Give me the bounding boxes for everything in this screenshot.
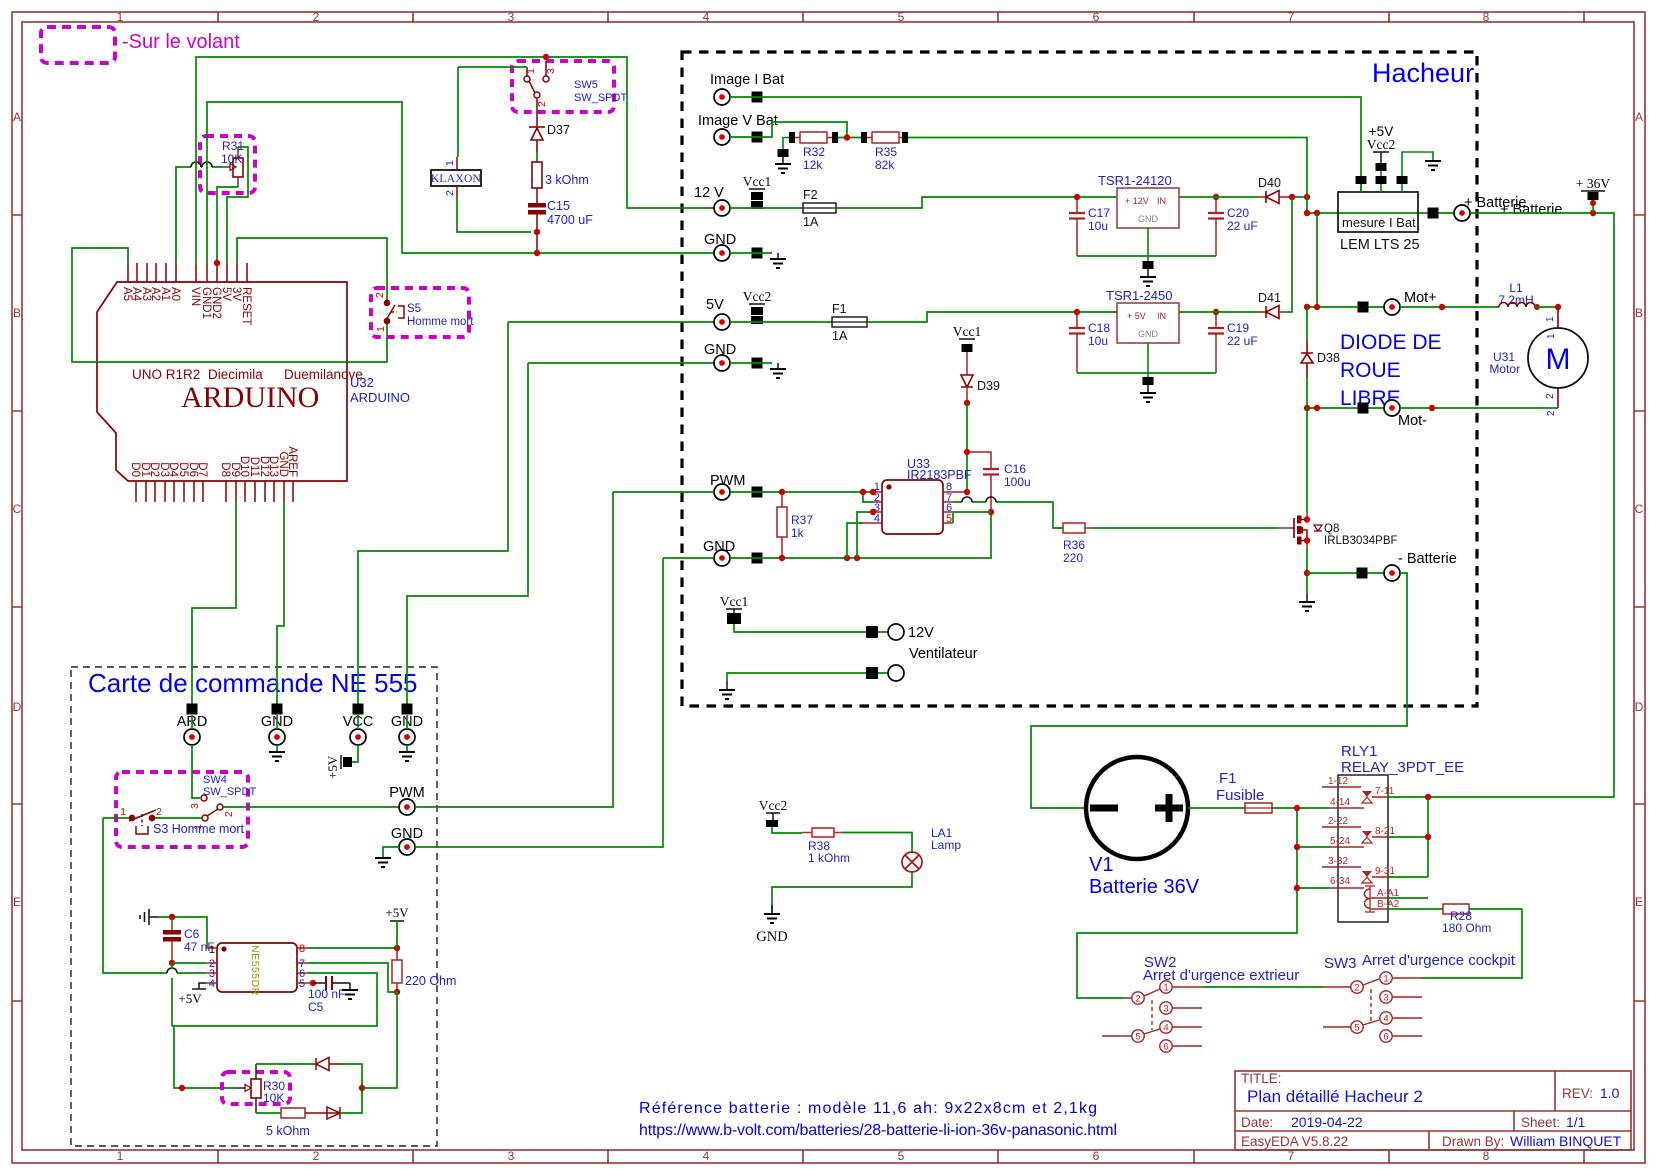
svg-text:GND: GND bbox=[756, 929, 787, 945]
wire fan gnd bbox=[727, 673, 888, 681]
svg-text:D38: D38 bbox=[1317, 351, 1340, 365]
svg-text:12 V: 12 V bbox=[694, 185, 724, 201]
svg-text:C15: C15 bbox=[547, 199, 570, 213]
transistor Q8 IRLB3034PBF bbox=[1293, 518, 1295, 538]
svg-text:6: 6 bbox=[1383, 1032, 1388, 1043]
svg-text:+5V: +5V bbox=[325, 755, 340, 779]
svg-text:IN: IN bbox=[1157, 196, 1166, 206]
svg-text:5: 5 bbox=[898, 10, 905, 24]
svg-text:3: 3 bbox=[189, 803, 201, 809]
svg-text:TSR1-2450: TSR1-2450 bbox=[1106, 288, 1172, 303]
svg-text:Vcc2: Vcc2 bbox=[1367, 137, 1395, 152]
svg-text:7: 7 bbox=[1288, 1149, 1295, 1163]
svg-text:E: E bbox=[13, 895, 21, 909]
power flag +5V pin4 bbox=[199, 983, 206, 989]
svg-text:ARDUINO: ARDUINO bbox=[350, 390, 410, 405]
wire gnd to pin1 bbox=[158, 917, 207, 948]
svg-text:1/1: 1/1 bbox=[1566, 1114, 1586, 1130]
wire A0 to R31 wiper with hops bbox=[176, 167, 222, 263]
svg-text:+5V: +5V bbox=[178, 991, 202, 1006]
svg-text:3: 3 bbox=[545, 68, 557, 74]
wire A5 to S5 pin1 bbox=[72, 248, 387, 362]
frame row letters bbox=[13, 110, 1644, 909]
svg-text:Vcc2: Vcc2 bbox=[743, 289, 771, 304]
junction SW5 pin3 bbox=[543, 54, 549, 60]
svg-text:William BINQUET: William BINQUET bbox=[1510, 1133, 1622, 1149]
svg-text:-Sur le volant: -Sur le volant bbox=[122, 31, 240, 53]
svg-text:RLY1: RLY1 bbox=[1341, 743, 1377, 760]
svg-text:Plan détaillé Hacheur 2: Plan détaillé Hacheur 2 bbox=[1247, 1087, 1423, 1106]
svg-text:6: 6 bbox=[1163, 1042, 1168, 1053]
svg-text:Ventilateur: Ventilateur bbox=[909, 646, 978, 662]
resistor 3kOhm bbox=[532, 162, 542, 188]
port + Batterie bbox=[1428, 208, 1439, 219]
svg-text:5-24: 5-24 bbox=[1330, 836, 1350, 847]
svg-text:AREF: AREF bbox=[286, 446, 298, 477]
capacitor C6 bbox=[171, 917, 173, 930]
resistor R36 220 bbox=[1063, 523, 1085, 533]
wire D37 to R bbox=[536, 152, 538, 162]
svg-text:220: 220 bbox=[1063, 551, 1083, 565]
svg-text:2: 2 bbox=[1546, 410, 1557, 416]
svg-text:UNO R1R2: UNO R1R2 bbox=[132, 367, 200, 382]
ground port 12V bbox=[770, 259, 786, 268]
relay contact group 1 bbox=[1322, 787, 1388, 808]
ground ARD board bbox=[269, 752, 285, 761]
wire PWM port to U33 bbox=[730, 491, 873, 493]
ground TSR1 bbox=[1140, 277, 1156, 286]
dashed box Hacheur bbox=[682, 52, 1477, 706]
wire diode node to 220 bottom bbox=[362, 992, 397, 1088]
svg-text:9-31: 9-31 bbox=[1375, 866, 1395, 877]
svg-text:5: 5 bbox=[299, 978, 305, 990]
wire fuse to relay commons bbox=[1272, 807, 1330, 809]
svg-text:C18: C18 bbox=[1088, 321, 1110, 335]
svg-text:8-21: 8-21 bbox=[1375, 826, 1395, 837]
svg-text:NE555DR: NE555DR bbox=[249, 945, 261, 996]
svg-text:Drawn By:: Drawn By: bbox=[1442, 1134, 1504, 1149]
diode bottom branch bbox=[327, 1107, 340, 1119]
junction divider tap bbox=[844, 134, 850, 140]
svg-text:8: 8 bbox=[299, 943, 305, 955]
svg-text:GND: GND bbox=[1138, 214, 1159, 224]
wire Mot- to Q8 drain bbox=[1306, 408, 1308, 513]
svg-text:10u: 10u bbox=[1088, 334, 1108, 348]
svg-text:Référence batterie : modèle 11: Référence batterie : modèle 11,6 ah: 9x2… bbox=[639, 1100, 1097, 1117]
svg-text:2: 2 bbox=[444, 190, 456, 196]
svg-text:4700 uF: 4700 uF bbox=[547, 213, 593, 227]
wire VCC to +5V flag bbox=[352, 745, 358, 762]
resistor R35 bbox=[861, 132, 867, 143]
port VCC bbox=[353, 704, 364, 715]
wire coil B to R28 bbox=[1388, 908, 1443, 910]
wire R28 to SW3 bbox=[1422, 909, 1522, 978]
svg-text:1A: 1A bbox=[803, 215, 819, 229]
wire 12V to fuse bbox=[730, 207, 803, 209]
svg-text:D: D bbox=[13, 700, 22, 714]
switch SW4 bbox=[201, 795, 223, 821]
ground fan bbox=[726, 681, 728, 690]
svg-text:1: 1 bbox=[525, 68, 537, 74]
wire TSR2 gnd rail bbox=[1077, 372, 1216, 374]
svg-text:D41: D41 bbox=[1258, 291, 1281, 305]
svg-text:TSR1-24120: TSR1-24120 bbox=[1098, 173, 1172, 188]
wire LEM right pin to ground bbox=[1402, 152, 1433, 176]
wire TSR2 output rail bbox=[1179, 311, 1258, 313]
U33 pins right bbox=[943, 492, 967, 523]
svg-text:Q8: Q8 bbox=[1324, 523, 1339, 535]
capacitor C16 bbox=[967, 452, 991, 512]
svg-text:2: 2 bbox=[313, 1149, 320, 1163]
junction 220 bottom bbox=[394, 989, 400, 995]
svg-text:4: 4 bbox=[1163, 1023, 1168, 1034]
relay contact group 2 bbox=[1322, 827, 1388, 847]
svg-text:D7: D7 bbox=[196, 462, 208, 477]
wire Q8 drain bbox=[1306, 513, 1308, 520]
svg-text:82k: 82k bbox=[875, 158, 895, 172]
port Mot- bbox=[1358, 403, 1369, 414]
svg-text:2: 2 bbox=[313, 10, 320, 24]
svg-text:6-34: 6-34 bbox=[1330, 876, 1350, 887]
svg-text:REV:: REV: bbox=[1562, 1086, 1593, 1101]
svg-text:3-32: 3-32 bbox=[1328, 856, 1348, 867]
svg-text:R32: R32 bbox=[803, 145, 825, 159]
capacitor C20 bbox=[1208, 213, 1224, 219]
wire TSR1 output rail bbox=[1179, 196, 1258, 198]
svg-text:3: 3 bbox=[508, 10, 515, 24]
svg-text:1: 1 bbox=[1163, 983, 1168, 994]
svg-text:Image V Bat: Image V Bat bbox=[698, 113, 778, 129]
wire lamp to gnd bbox=[772, 872, 912, 912]
wire Mot+ line bbox=[1307, 306, 1384, 308]
svg-text:3: 3 bbox=[508, 1149, 515, 1163]
wire ARD to SW4 pin3 bbox=[192, 745, 200, 798]
svg-text:U32: U32 bbox=[350, 375, 374, 390]
diode D38 roue libre bbox=[1301, 353, 1313, 363]
svg-text:Mot-: Mot- bbox=[1398, 413, 1427, 429]
wire PWM into Hacheur bbox=[613, 491, 714, 493]
resistor R38 1 kOhm bbox=[802, 832, 842, 834]
wire GND 5V to GND2 board bbox=[407, 363, 714, 704]
svg-text:A: A bbox=[13, 110, 21, 124]
current sensor LEM LTS 25 bbox=[1338, 192, 1418, 232]
svg-text:12V: 12V bbox=[908, 625, 934, 641]
svg-text:2: 2 bbox=[536, 101, 548, 107]
motor pin2 bbox=[1557, 388, 1559, 408]
wire V sense to vertical bus bbox=[908, 138, 1307, 198]
wire pin6 threshold loop bbox=[172, 973, 377, 1026]
wire trigger down to wiper bbox=[174, 1026, 237, 1088]
svg-text:Lamp: Lamp bbox=[931, 838, 961, 852]
switch S5 Homme mort bbox=[384, 300, 404, 323]
svg-text:1: 1 bbox=[375, 326, 387, 332]
svg-text:C6: C6 bbox=[184, 927, 200, 941]
svg-text:Carte de commande NE 555: Carte de commande NE 555 bbox=[88, 668, 418, 698]
svg-text:1: 1 bbox=[1545, 316, 1556, 322]
wire R32 left to ground bbox=[783, 138, 789, 151]
wire VIN to 12V rail bbox=[196, 57, 714, 263]
wire Q8 source bbox=[1306, 541, 1308, 549]
svg-text:1-12: 1-12 bbox=[1328, 776, 1348, 787]
svg-text:C19: C19 bbox=[1227, 321, 1249, 335]
svg-text:C: C bbox=[1635, 502, 1644, 516]
svg-text:S5: S5 bbox=[407, 303, 421, 315]
junction relay commons bbox=[1294, 805, 1300, 811]
arduino bottom pins bbox=[136, 481, 293, 502]
svg-text:Date:: Date: bbox=[1241, 1115, 1273, 1130]
ground C5 bbox=[349, 983, 351, 990]
wire LEM measure line bbox=[1307, 212, 1454, 214]
svg-text:IN: IN bbox=[1157, 311, 1166, 321]
svg-text:+ Batterie: + Batterie bbox=[1500, 202, 1562, 218]
junction wiper bbox=[179, 1085, 185, 1091]
svg-text:Batterie 36V: Batterie 36V bbox=[1089, 876, 1200, 898]
switch S3 Homme mort bbox=[129, 810, 156, 834]
svg-text:100u: 100u bbox=[1004, 475, 1031, 489]
svg-text:5V: 5V bbox=[706, 297, 724, 313]
junctions GND rail bbox=[779, 555, 785, 561]
trimmer R30 bbox=[237, 1087, 245, 1089]
svg-text:220 Ohm: 220 Ohm bbox=[405, 974, 456, 988]
wire S3 to NE555 pin3 with hop bbox=[103, 818, 206, 973]
junction pin5 bbox=[310, 980, 316, 986]
wire U33 pin7 to R36 with hops bbox=[953, 502, 1063, 528]
potentiometer R31 dashed box bbox=[200, 136, 255, 193]
svg-text:4: 4 bbox=[703, 1149, 710, 1163]
wire pin8 to +5V and 220 bbox=[308, 947, 397, 949]
wire coil A stub bbox=[1388, 897, 1428, 899]
ground LEM bbox=[1425, 161, 1441, 170]
svg-text:F1: F1 bbox=[1219, 770, 1237, 787]
R31 wiper arrow bbox=[222, 166, 230, 168]
wire GND rail to C16 riser bbox=[730, 512, 991, 558]
wire F2 to TSR1 input bbox=[836, 197, 1117, 208]
svg-text:D: D bbox=[1635, 700, 1644, 714]
svg-text:1: 1 bbox=[209, 944, 215, 956]
svg-text:Diecimila: Diecimila bbox=[208, 367, 263, 382]
svg-text:180 Ohm: 180 Ohm bbox=[1442, 921, 1491, 935]
ground port 5V bbox=[770, 369, 786, 378]
svg-text:2-22: 2-22 bbox=[1328, 816, 1348, 827]
wire Vcc1 to 12V fan port bbox=[734, 624, 888, 632]
svg-text:D40: D40 bbox=[1258, 176, 1281, 190]
wire GND board to Hacheur bbox=[415, 558, 663, 847]
svg-text:1A: 1A bbox=[832, 329, 848, 343]
svg-text:LEM LTS 25: LEM LTS 25 bbox=[1340, 237, 1420, 253]
ground NE555 pin1 bbox=[140, 909, 149, 925]
svg-text:Vcc1: Vcc1 bbox=[720, 594, 748, 609]
svg-text:EasyEDA V5.8.22: EasyEDA V5.8.22 bbox=[1241, 1134, 1348, 1149]
svg-text:1: 1 bbox=[1546, 333, 1557, 339]
port Ventilateur bbox=[866, 667, 878, 679]
svg-text:IRLB3034PBF: IRLB3034PBF bbox=[1324, 535, 1398, 547]
svg-text:SW_SPDT: SW_SPDT bbox=[574, 92, 627, 104]
wire Mot+ to L1 bbox=[1400, 306, 1499, 308]
svg-text:7: 7 bbox=[1288, 10, 1295, 24]
arduino top pins bbox=[128, 263, 247, 282]
svg-text:12k: 12k bbox=[803, 158, 823, 172]
wire SW2 to SW3 bbox=[1202, 986, 1323, 988]
svg-text:10K: 10K bbox=[263, 1091, 284, 1105]
wire Vcc2 to R38 bbox=[772, 827, 802, 833]
junction U33 pin8 node bbox=[964, 489, 970, 495]
ground lamp bbox=[771, 905, 773, 914]
svg-text:2: 2 bbox=[374, 292, 386, 298]
svg-text:SW5: SW5 bbox=[574, 79, 598, 91]
svg-text:4: 4 bbox=[1383, 1014, 1388, 1025]
switch S5 dashed box bbox=[371, 288, 469, 337]
switch SW5 dashed box bbox=[512, 61, 614, 112]
wire R31 bottom to GND2 pin bbox=[217, 187, 238, 263]
wire GND pin to GND port bbox=[277, 502, 284, 704]
wire pin2 bbox=[172, 962, 206, 964]
svg-text:M: M bbox=[1546, 343, 1571, 376]
port 12V fan bbox=[866, 626, 878, 638]
wire main bus D40 node down to LEM line bbox=[1306, 197, 1308, 213]
svg-text:D39: D39 bbox=[977, 379, 1000, 393]
svg-text:8: 8 bbox=[1483, 1149, 1490, 1163]
wire + Batterie to +36V corner bbox=[1428, 213, 1614, 797]
svg-text:5: 5 bbox=[1354, 1023, 1359, 1034]
svg-text:DIODE DE: DIODE DE bbox=[1340, 331, 1442, 354]
svg-text:+ 5V: + 5V bbox=[1127, 311, 1146, 321]
svg-text:C16: C16 bbox=[1004, 462, 1026, 476]
svg-text:C: C bbox=[13, 502, 22, 516]
svg-text:2: 2 bbox=[156, 806, 162, 818]
wire divider tap bbox=[838, 137, 861, 139]
arduino U32 body bbox=[97, 282, 347, 481]
wire PWM board to Hacheur bbox=[415, 492, 613, 807]
wire U33 pin5 stub bbox=[952, 513, 954, 523]
svg-text:8: 8 bbox=[1483, 10, 1490, 24]
wire battery feed to Mot+ bbox=[1316, 213, 1318, 307]
junction C15 bottom bbox=[534, 229, 540, 235]
wire D41 riser to D40 bbox=[1285, 197, 1307, 312]
svg-text:Fusible: Fusible bbox=[1216, 787, 1264, 804]
wire Image V Bat jog to divider tap bbox=[730, 122, 847, 137]
arduino bottom pin names bbox=[129, 446, 298, 477]
port GND board bbox=[272, 704, 283, 715]
title block bbox=[1235, 1071, 1631, 1150]
wire L1 to motor pin1 bbox=[1535, 306, 1558, 308]
svg-text:Image I Bat: Image I Bat bbox=[710, 72, 784, 88]
ground GND2 board bbox=[399, 752, 415, 761]
svg-text:5 kOhm: 5 kOhm bbox=[266, 1124, 310, 1138]
svg-text:2: 2 bbox=[1135, 994, 1140, 1005]
svg-text:RELAY_3PDT_EE: RELAY_3PDT_EE bbox=[1341, 759, 1464, 776]
ground Q8 bbox=[1306, 593, 1308, 602]
wire TSR1 gnd rail bbox=[1077, 255, 1216, 257]
wire R38 to lamp bbox=[842, 833, 912, 853]
frame column numbers top bbox=[117, 10, 1490, 24]
junction GND2 pin bbox=[214, 260, 220, 266]
svg-text:GND: GND bbox=[1138, 329, 1159, 339]
resistor R28 180 Ohm bbox=[1443, 904, 1469, 914]
svg-text:22 uF: 22 uF bbox=[1227, 334, 1258, 348]
svg-text:SW_SPDT: SW_SPDT bbox=[203, 786, 256, 798]
wire F1 to TSR2 input bbox=[867, 312, 1117, 322]
junction on GND rail bbox=[534, 250, 540, 256]
wire PWM to pin2 bbox=[863, 492, 873, 502]
wire pin7 to 220 bottom bbox=[308, 963, 397, 992]
LEM top pins bbox=[1361, 176, 1402, 192]
wire 3V to S5 pin2 bbox=[237, 238, 387, 303]
wire R36 to Q8 gate bbox=[1085, 527, 1092, 529]
svg-text:A: A bbox=[1635, 110, 1643, 124]
wire GND into Hacheur bbox=[663, 557, 714, 559]
wire GND1 branch to KLAXON and SW5 pin1 bbox=[458, 66, 527, 68]
junction C16 bottom pin6 bbox=[988, 509, 994, 515]
svg-text:4: 4 bbox=[703, 10, 710, 24]
junction D40 D41 bbox=[1289, 194, 1295, 200]
svg-text:1 kOhm: 1 kOhm bbox=[808, 851, 850, 865]
resistor R37 bbox=[777, 507, 787, 537]
port GND2 board bbox=[402, 704, 413, 715]
svg-text:F1: F1 bbox=[832, 302, 847, 316]
svg-text:F2: F2 bbox=[803, 188, 818, 202]
trimmer R30 dashed box bbox=[222, 1072, 290, 1104]
svg-text:TITLE:: TITLE: bbox=[1241, 1071, 1282, 1086]
Q8 body diode mark bbox=[1314, 525, 1322, 531]
relay contact group 3 bbox=[1322, 867, 1388, 888]
svg-text:+ 12V: + 12V bbox=[1125, 196, 1149, 206]
svg-text:Arret d'urgence cockpit: Arret d'urgence cockpit bbox=[1362, 952, 1516, 969]
IC NE555DR bbox=[217, 943, 297, 992]
wire 5V to fuse F1 bbox=[730, 321, 832, 323]
svg-text:RESET: RESET bbox=[240, 287, 252, 325]
svg-text:Vcc1: Vcc1 bbox=[743, 174, 771, 189]
junction D39 bbox=[964, 400, 970, 406]
motor U31 bbox=[1528, 328, 1588, 388]
svg-text:4: 4 bbox=[874, 513, 880, 525]
svg-text:R37: R37 bbox=[791, 513, 813, 527]
svg-text:6: 6 bbox=[1093, 10, 1100, 24]
wire 5V to VCC board bbox=[358, 322, 714, 704]
junction bus at LEM line bbox=[1304, 210, 1310, 216]
wire SW4 pin2 to PWM port bbox=[223, 806, 399, 808]
junction +36V bbox=[1590, 210, 1596, 216]
junction Q8 source node bbox=[1304, 570, 1310, 576]
capacitor C5 bbox=[313, 982, 350, 984]
NE555 pins bbox=[206, 948, 217, 983]
junction diode node bbox=[359, 1085, 365, 1091]
relay coil bbox=[1364, 889, 1370, 908]
svg-text:5: 5 bbox=[898, 1149, 905, 1163]
svg-text:A0: A0 bbox=[169, 287, 181, 301]
svg-text:1: 1 bbox=[1383, 974, 1388, 985]
svg-text:7-11: 7-11 bbox=[1375, 786, 1395, 797]
diode D37 bbox=[529, 127, 545, 152]
wire Image I Bat to LEM bbox=[730, 97, 1361, 192]
svg-text:+5V: +5V bbox=[385, 905, 409, 920]
port Mot+ bbox=[1358, 302, 1369, 313]
fuse F1 1A bbox=[832, 317, 867, 327]
wire Mot- line bbox=[1307, 407, 1384, 409]
svg-text:ARDUINO: ARDUINO bbox=[181, 381, 319, 414]
svg-text:mesure I Bat: mesure I Bat bbox=[1342, 215, 1416, 230]
svg-text:3: 3 bbox=[1163, 1004, 1168, 1015]
junction C19 bbox=[1213, 309, 1219, 315]
wire R31 top to 5V pin bbox=[227, 147, 248, 263]
svg-text:ROUE: ROUE bbox=[1340, 359, 1401, 382]
svg-text:100 nF: 100 nF bbox=[308, 987, 345, 1001]
svg-text:+ 36V: + 36V bbox=[1576, 176, 1610, 191]
junction Mot+ bbox=[1304, 304, 1310, 310]
ground lower port bbox=[383, 847, 399, 858]
svg-text:Sheet:: Sheet: bbox=[1521, 1115, 1560, 1130]
potentiometer R31 bbox=[233, 158, 243, 177]
switch SW5 bbox=[524, 61, 549, 126]
